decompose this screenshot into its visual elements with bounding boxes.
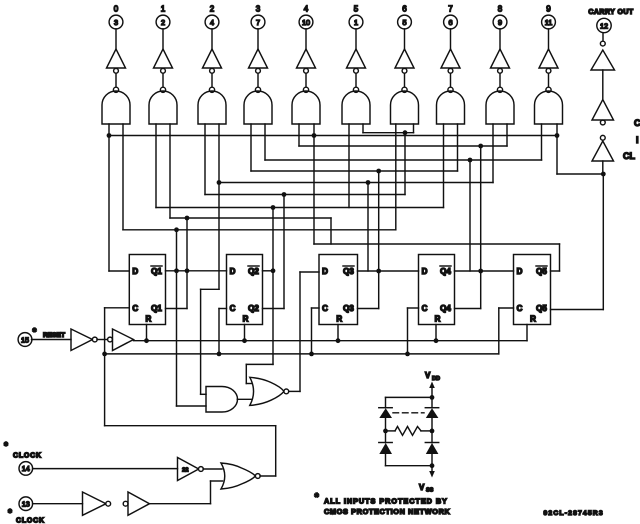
wire gate1 right leg (169, 124, 171, 218)
svg-text:D: D (422, 267, 428, 276)
wire Q4 stub (455, 308, 481, 310)
svg-text:*: * (315, 492, 320, 504)
bus A wire (Q5 / D1 net) (107, 133, 557, 138)
RESET label (43, 332, 65, 339)
resistor R1 (386, 427, 433, 436)
svg-text:7: 7 (448, 5, 453, 14)
svg-text:0: 0 (114, 5, 119, 14)
pin circle 15 RESET (18, 333, 71, 347)
wire gate0 right leg (122, 124, 124, 230)
svg-text:11: 11 (545, 18, 553, 27)
wire Q2 riser (283, 195, 285, 309)
svg-text:R: R (435, 315, 441, 324)
svg-text:D: D (132, 267, 138, 276)
svg-text:V: V (425, 371, 431, 380)
inverter buffer for output 2 (203, 49, 222, 87)
svg-text:I: I (636, 135, 639, 145)
NAND decode gate for output 3 (244, 87, 272, 124)
svg-text:CL: CL (623, 151, 635, 161)
svg-text:*: * (33, 327, 37, 338)
asterisk for reset (33, 327, 37, 338)
svg-text:D: D (230, 267, 236, 276)
svg-text:Q5: Q5 (536, 267, 547, 276)
wire Q4 riser (478, 146, 483, 309)
wire gate4 right leg (313, 124, 315, 244)
wire gate6 right leg (413, 124, 415, 133)
inverter buffer for output 4 (297, 49, 316, 87)
svg-text:2: 2 (161, 18, 165, 27)
svg-text:Q2: Q2 (248, 304, 259, 313)
wire Q2 stub (263, 308, 285, 310)
footnote line 2 (324, 507, 451, 516)
svg-text:C: C (517, 304, 523, 313)
wire gate8 right leg (506, 124, 508, 146)
flip-flop FF1 (129, 255, 165, 325)
wire FF2 C riser (219, 309, 227, 354)
svg-text:92CL-28745R3: 92CL-28745R3 (544, 510, 604, 517)
svg-text:3: 3 (256, 5, 261, 14)
diode D3 lower left (379, 431, 392, 466)
svg-text:3: 3 (114, 18, 118, 27)
CARRY OUT label (588, 9, 634, 16)
wire Q2bar riser down to NOR gate input (246, 208, 275, 384)
wire gate2 right leg (218, 124, 220, 183)
svg-text:C: C (322, 304, 328, 313)
bus H wire (Q1 net) (170, 216, 331, 244)
wire Q1bar to D2 (166, 270, 227, 272)
svg-text:4: 4 (304, 5, 309, 14)
svg-text:Q2: Q2 (248, 267, 259, 276)
NAND decode gate for output 6 (391, 87, 419, 124)
svg-text:CMOS PROTECTION NETWORK: CMOS PROTECTION NETWORK (324, 507, 451, 516)
svg-text:8: 8 (498, 5, 503, 14)
VDD label (425, 371, 440, 382)
wire gate9 right leg down to carry node (555, 124, 606, 176)
svg-text:Q4: Q4 (440, 304, 451, 313)
carry inverter C (592, 135, 614, 174)
buffer 22 (178, 458, 223, 481)
NAND decode gate for output 0 (102, 87, 130, 124)
NAND decode gate for output 5 (342, 87, 370, 124)
wire Q3bar to D4 (358, 270, 419, 272)
svg-text:5: 5 (402, 18, 406, 27)
wire Q2bar stub (263, 270, 274, 272)
svg-text:14: 14 (22, 464, 30, 473)
flip-flop FF4 (419, 255, 455, 325)
inverter buffer for output 3 (249, 49, 268, 87)
wire gate1 left leg (155, 124, 157, 208)
svg-text:C: C (422, 304, 428, 313)
clock inverter 2 (123, 492, 210, 515)
inverter buffer for output 9 (539, 49, 558, 87)
svg-text:15: 15 (21, 335, 29, 344)
bus D wire (Q3 net) (251, 169, 458, 174)
svg-text:C: C (634, 118, 640, 128)
wire clock riser to FF1 C (105, 308, 130, 426)
output 9 pin circle 11 (542, 5, 556, 50)
wire D1 input (109, 270, 129, 272)
svg-text:V: V (419, 483, 425, 492)
output 4 pin circle 10 (299, 5, 313, 50)
svg-text:DD: DD (432, 376, 440, 382)
drawing number (544, 510, 604, 517)
svg-text:CLOCK: CLOCK (13, 453, 42, 460)
VDD arrow (429, 382, 435, 398)
NAND decode gate for output 8 (486, 87, 514, 124)
output 0 pin circle 3 (109, 5, 123, 50)
reset buffer 1 (71, 329, 108, 351)
wire Q1bar riser (bus I to Q1bar line, to AND gate input) (174, 230, 206, 406)
inverter buffer for output 7 (441, 49, 460, 87)
wire gate6 left leg (395, 124, 397, 230)
svg-text:R: R (243, 315, 249, 324)
asterisk clock 13 (8, 508, 12, 519)
mini bus wire gate5R-gate6R (363, 130, 414, 135)
output 2 pin circle 4 (205, 5, 219, 50)
wire Q3 riser (376, 171, 381, 309)
VSS arrow (429, 466, 435, 478)
NAND decode gate for output 1 (149, 87, 177, 124)
flip-flop FF2 (227, 255, 263, 325)
carry inverter B (592, 100, 614, 125)
VSS label (419, 483, 434, 494)
wire gate9 left leg (541, 124, 543, 160)
svg-text:Q3: Q3 (343, 267, 354, 276)
bus F wire (Q2 net) (205, 133, 405, 197)
svg-text:9: 9 (546, 5, 551, 14)
svg-text:C: C (230, 304, 236, 313)
svg-text:*: * (8, 508, 12, 519)
svg-text:13: 13 (22, 500, 30, 509)
svg-text:CARRY OUT: CARRY OUT (588, 9, 634, 16)
output 8 pin circle 9 (493, 5, 507, 50)
svg-text:C: C (132, 304, 138, 313)
svg-text:Q4: Q4 (440, 267, 451, 276)
svg-text:7: 7 (256, 18, 260, 27)
svg-text:CLOCK: CLOCK (16, 518, 45, 524)
footnote line 1 (324, 497, 448, 506)
wire U3 lower input (211, 481, 223, 504)
wire Q3 stub (358, 308, 379, 310)
bus I wire (Q1bar net) (123, 227, 396, 232)
wire gate7 left leg (443, 124, 445, 208)
carry inverter A (591, 41, 615, 99)
svg-text:2: 2 (210, 5, 215, 14)
wire gate7 right leg (457, 124, 459, 171)
wire FF3 C riser (312, 308, 320, 354)
wire gate2 left leg (204, 124, 206, 195)
svg-text:ALL INPUTS PROTECTED BY: ALL INPUTS PROTECTED BY (324, 497, 448, 506)
inverter buffer for output 8 (491, 49, 510, 87)
wire gate8 left leg (492, 124, 494, 183)
diode D4 lower right (425, 431, 438, 466)
reset buffer 2 (108, 329, 134, 351)
NOR gate U2 (250, 377, 289, 405)
wire Q5 to carry node (551, 174, 604, 310)
wire FF5 C riser (499, 308, 514, 354)
svg-text:R: R (336, 315, 342, 324)
wire NOR output riser to D3 (289, 272, 319, 391)
protection mid wires (383, 418, 434, 433)
svg-text:*: * (4, 441, 8, 452)
svg-text:D: D (322, 267, 328, 276)
pin circle 14 CLOCK (19, 462, 178, 476)
inverter buffer for output 6 (395, 49, 414, 87)
clock inverter 1 (83, 492, 111, 515)
wire Q3bar riser (367, 183, 369, 272)
NAND decode gate for output 4 (292, 87, 320, 124)
bus G wire (Q2bar net) (156, 205, 444, 210)
svg-text:1: 1 (354, 18, 358, 27)
svg-text:Q5: Q5 (536, 304, 547, 313)
AND gate U1 (206, 387, 252, 413)
svg-text:22: 22 (182, 468, 188, 474)
svg-text:10: 10 (302, 18, 310, 27)
svg-text:6: 6 (402, 5, 407, 14)
R risers (147, 325, 437, 341)
svg-text:R: R (146, 315, 152, 324)
wire Q1 stub (166, 308, 188, 310)
wire clock feed from NOR gate (105, 426, 276, 476)
wire Q5bar stub (551, 270, 560, 272)
svg-text:Q1: Q1 (151, 304, 162, 313)
bus C wire (Q4bar net) (265, 158, 542, 163)
svg-text:SS: SS (426, 488, 434, 494)
wire gate3 right leg (264, 124, 266, 160)
inverter buffer for output 0 (107, 49, 126, 87)
inverter buffer for output 1 (154, 49, 173, 87)
output 3 pin circle 7 (251, 5, 265, 50)
clock bus wire (102, 352, 499, 357)
CLOCK label 13 (16, 518, 45, 524)
wire gate3 left leg (250, 124, 252, 171)
bus J wire (Q5bar net) (314, 244, 560, 271)
wire Q4bar to D5 (455, 270, 514, 272)
output 7 pin circle 6 (444, 5, 458, 50)
protection top wire (386, 395, 435, 408)
bus B wire (Q4 net) (299, 144, 507, 149)
diode D2 upper right (425, 408, 438, 418)
svg-text:4: 4 (210, 18, 214, 27)
output 6 pin circle 5 (398, 5, 412, 50)
NAND decode gate for output 7 (437, 87, 465, 124)
svg-text:Q3: Q3 (343, 304, 354, 313)
svg-text:1: 1 (161, 5, 166, 14)
diode D1 upper left (379, 408, 392, 418)
svg-text:RESET: RESET (43, 332, 65, 339)
svg-text:5: 5 (354, 5, 359, 14)
bus E wire (Q3bar net) (217, 180, 493, 185)
inverter buffer for output 5 (347, 49, 366, 87)
pin circle 13 (19, 497, 83, 511)
right edge text fragments (623, 118, 640, 161)
reset bus wire (134, 325, 528, 344)
svg-text:R: R (530, 315, 536, 324)
wire Q4bar riser (469, 160, 471, 271)
NAND decode gate for output 9 (535, 87, 563, 124)
wire bus E to AND gate top input (201, 183, 219, 395)
flip-flop FF3 (319, 255, 358, 325)
svg-text:12: 12 (600, 21, 608, 30)
svg-text:D: D (517, 267, 523, 276)
footnote asterisk (315, 492, 320, 504)
wire gate4 left leg (298, 124, 300, 146)
wire gate5 right leg (362, 124, 364, 133)
NOR gate U3 (221, 463, 276, 489)
output 5 pin circle 1 (349, 5, 363, 50)
dashed wire between upper diodes (393, 412, 424, 414)
asterisk clock 14 (4, 441, 8, 452)
protection bottom wire (386, 463, 435, 468)
carry out pin circle 12 (597, 18, 611, 41)
NAND decode gate for output 2 (198, 87, 226, 124)
wire Q1 riser (185, 218, 190, 309)
flip-flop FF5 (514, 255, 551, 325)
svg-text:9: 9 (498, 18, 502, 27)
wire FF4 C riser (408, 308, 419, 354)
svg-text:Q1: Q1 (151, 267, 162, 276)
output 1 pin circle 2 (156, 5, 170, 50)
CLOCK label 14 (13, 453, 42, 460)
wire gate5 left leg (348, 124, 350, 208)
wire gate0 left leg / D1 riser (108, 124, 110, 271)
svg-text:6: 6 (448, 18, 452, 27)
